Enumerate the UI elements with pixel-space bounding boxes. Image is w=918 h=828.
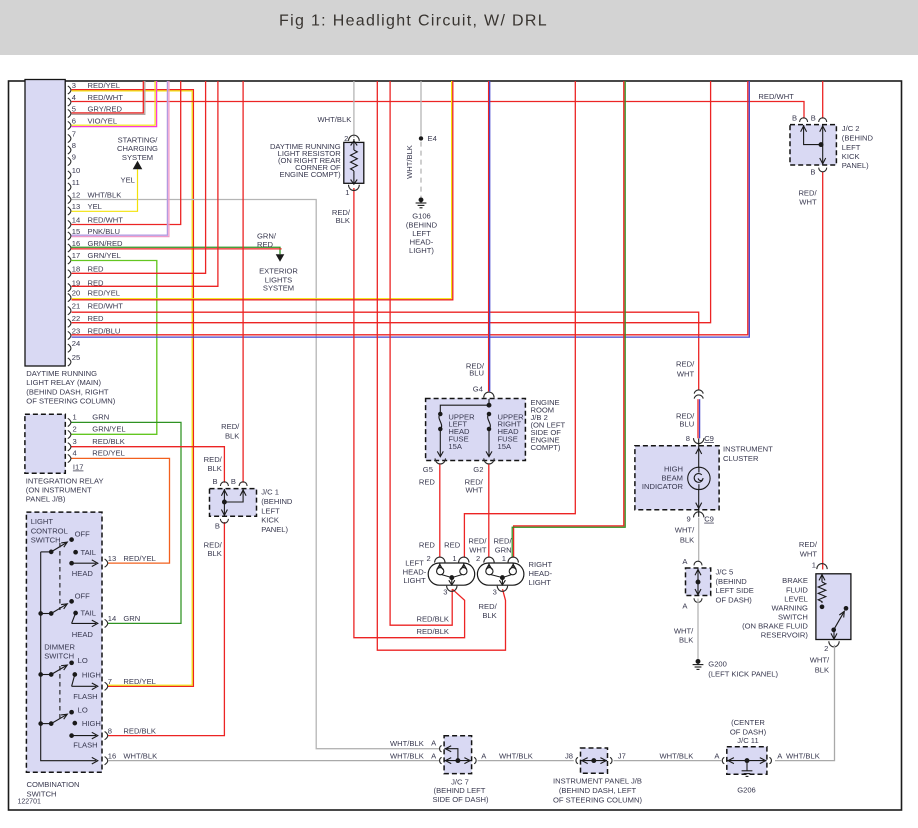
svg-text:122701: 122701 bbox=[18, 799, 41, 806]
wire WHT/BLK top frame to E4 bbox=[420, 81, 422, 136]
svg-text:C9: C9 bbox=[704, 434, 714, 443]
wire pin3 RED/YEL (yellow of pair) bbox=[72, 91, 193, 685]
cluster pin labels bbox=[686, 434, 714, 524]
svg-text:LEFT: LEFT bbox=[842, 143, 861, 152]
svg-text:HIGH: HIGH bbox=[82, 670, 101, 679]
lamp RIGHT HEADLIGHT bbox=[477, 563, 524, 585]
svg-text:LIGHT: LIGHT bbox=[31, 517, 54, 526]
lamp HIGH BEAM INDICATOR bbox=[688, 439, 710, 517]
wire RED/BLK left headlight pin 3 to top frame bbox=[390, 81, 452, 625]
svg-text:WHT/BLK: WHT/BLK bbox=[786, 751, 820, 760]
svg-text:RED/YEL: RED/YEL bbox=[88, 81, 121, 90]
svg-text:J/C 1: J/C 1 bbox=[261, 488, 279, 497]
svg-text:14: 14 bbox=[72, 215, 80, 224]
label HIGH BEAM INDICATOR bbox=[642, 465, 684, 492]
svg-text:17: 17 bbox=[72, 251, 80, 260]
svg-text:INSTRUMENT: INSTRUMENT bbox=[723, 445, 773, 454]
svg-text:G106: G106 bbox=[412, 212, 431, 221]
resistor pin 1 arc bbox=[349, 185, 360, 191]
wire WHT/BLK dashed E4 to G106 bbox=[420, 142, 422, 197]
svg-text:18: 18 bbox=[72, 265, 80, 274]
svg-text:22: 22 bbox=[72, 314, 80, 323]
svg-text:HEAD: HEAD bbox=[72, 569, 94, 578]
svg-text:25: 25 bbox=[72, 353, 80, 362]
svg-text:WHT/BLK: WHT/BLK bbox=[405, 145, 414, 179]
junction J/C2 box bbox=[790, 125, 836, 165]
svg-text:21: 21 bbox=[72, 302, 80, 311]
svg-text:RIGHT: RIGHT bbox=[529, 560, 553, 569]
combination switch pin labels bbox=[108, 554, 157, 761]
brake switch pin 1 arc bbox=[817, 564, 827, 570]
svg-text:1: 1 bbox=[812, 560, 816, 569]
svg-text:KICK: KICK bbox=[261, 516, 279, 525]
svg-text:SWITCH: SWITCH bbox=[44, 651, 74, 660]
svg-text:HEAD-: HEAD- bbox=[403, 567, 427, 576]
resistor element and arrows bbox=[351, 139, 358, 185]
svg-text:16: 16 bbox=[108, 752, 116, 761]
svg-text:DAYTIME RUNNING: DAYTIME RUNNING bbox=[26, 369, 97, 378]
svg-text:8: 8 bbox=[108, 726, 112, 735]
svg-text:(BEHIND DASH, RIGHT: (BEHIND DASH, RIGHT bbox=[26, 387, 109, 396]
junction J/C11 box bbox=[727, 747, 767, 775]
svg-text:A: A bbox=[431, 739, 437, 748]
J/C2 pin B labels bbox=[792, 113, 816, 176]
svg-text:PANEL J/B): PANEL J/B) bbox=[26, 494, 66, 503]
J/C5 pin arcs bbox=[694, 561, 702, 602]
label G106 (BEHIND LEFT HEADLIGHT) bbox=[406, 212, 438, 256]
label LIGHT CONTROL SWITCH bbox=[31, 517, 68, 545]
svg-text:OF STEERING COLUMN): OF STEERING COLUMN) bbox=[26, 397, 115, 406]
svg-text:LIGHT): LIGHT) bbox=[409, 246, 434, 255]
label J/C 7 (BEHIND LEFT SIDE OF DASH) bbox=[432, 777, 489, 804]
combination switch pin arcs bbox=[105, 559, 108, 765]
wire RED/BLU (red of pair) connector to cluster pin 8 bbox=[697, 399, 699, 438]
switch COMBINATION SWITCH box bbox=[26, 512, 102, 772]
wire RED/BLK top frame to J/C1 pin B right bbox=[242, 81, 244, 483]
svg-text:RED/WHT: RED/WHT bbox=[758, 92, 794, 101]
svg-text:WHT/BLK: WHT/BLK bbox=[390, 739, 424, 748]
svg-text:CHARGING: CHARGING bbox=[117, 144, 158, 153]
wire pin15 PNK/BLU (violet of pair) to top frame bbox=[72, 81, 168, 235]
svg-text:LO: LO bbox=[78, 656, 88, 665]
switch BRAKE FLUID LEVEL WARNING SWITCH box bbox=[816, 574, 851, 640]
svg-text:RED: RED bbox=[88, 265, 105, 274]
wire pin20 RED/YEL (red of pair) bbox=[72, 81, 453, 300]
svg-text:BLU: BLU bbox=[469, 369, 484, 378]
wire RED/BLK right headlight pin 3 to top frame bbox=[377, 81, 505, 650]
svg-text:(BEHIND: (BEHIND bbox=[406, 220, 438, 229]
label WHT/BLK below brake switch bbox=[810, 655, 830, 674]
label INTEGRATION RELAY (ON INSTRUMENT PANEL J/B) bbox=[26, 476, 104, 503]
light control switch pole 2 bbox=[39, 600, 98, 627]
svg-text:A: A bbox=[682, 557, 688, 566]
svg-text:WHT/BLK: WHT/BLK bbox=[318, 115, 352, 124]
svg-text:PANEL): PANEL) bbox=[842, 161, 869, 170]
svg-text:G200: G200 bbox=[708, 660, 727, 669]
wire WHT/BLK J/C5 to G200 bbox=[697, 599, 699, 660]
svg-text:PNK/BLU: PNK/BLU bbox=[88, 227, 121, 236]
svg-text:13: 13 bbox=[72, 202, 80, 211]
svg-text:RESERVOIR): RESERVOIR) bbox=[761, 630, 809, 639]
fuse UPPER LEFT HEAD FUSE 15A bbox=[437, 412, 443, 457]
svg-text:C9: C9 bbox=[704, 515, 714, 524]
svg-text:5: 5 bbox=[72, 104, 76, 113]
svg-text:WHT/: WHT/ bbox=[674, 627, 694, 636]
combination switch common bus to pin 16 bbox=[41, 552, 98, 764]
svg-text:RED/: RED/ bbox=[676, 359, 695, 368]
label J/C 1 (BEHIND LEFT KICK PANEL) bbox=[261, 488, 293, 535]
svg-text:SYSTEM: SYSTEM bbox=[122, 153, 153, 162]
light control switch 1 position labels bbox=[72, 530, 96, 579]
arrowhead to exterior lights system bbox=[276, 254, 285, 262]
label DIMMER SWITCH bbox=[44, 642, 75, 660]
svg-text:ENGINE COMPT): ENGINE COMPT) bbox=[280, 170, 342, 179]
label J/C 2 (BEHIND LEFT KICK PANEL) bbox=[842, 124, 874, 170]
svg-text:SWITCH: SWITCH bbox=[31, 535, 61, 544]
svg-text:BLK: BLK bbox=[207, 464, 221, 473]
wire pin4 RED/WHT to J/C2 pin B left bbox=[72, 102, 805, 119]
label G200 (LEFT KICK PANEL) bbox=[708, 660, 778, 679]
svg-text:INTEGRATION RELAY: INTEGRATION RELAY bbox=[26, 476, 104, 485]
svg-text:SIDE OF DASH): SIDE OF DASH) bbox=[432, 795, 489, 804]
svg-text:CONTROL: CONTROL bbox=[31, 527, 68, 536]
wire RED/WHT top frame to J/C2 pin B right bbox=[822, 81, 824, 119]
svg-text:8: 8 bbox=[686, 434, 690, 443]
svg-text:RED: RED bbox=[444, 540, 461, 549]
svg-text:TAIL: TAIL bbox=[81, 609, 96, 618]
svg-text:VIO/YEL: VIO/YEL bbox=[88, 116, 118, 125]
J/C1 internal links bbox=[221, 489, 246, 516]
label BRAKE FLUID LEVEL WARNING SWITCH (ON BRAKE FLUID RESERVOIR) bbox=[742, 576, 808, 639]
svg-text:Fig 1: Headlight Circuit, W/ D: Fig 1: Headlight Circuit, W/ DRL bbox=[279, 12, 548, 29]
svg-text:9: 9 bbox=[686, 515, 690, 524]
J/C2 pin arcs bbox=[800, 118, 827, 172]
svg-text:RED/BLU: RED/BLU bbox=[88, 326, 121, 335]
label WHT/BLK below J/C5 bbox=[674, 627, 694, 645]
wire WHT/BLK top frame to DRL resistor pin 2 bbox=[353, 81, 355, 138]
svg-text:G4: G4 bbox=[473, 385, 483, 394]
svg-text:FLASH: FLASH bbox=[73, 692, 97, 701]
dimmer switch pole 2 bbox=[39, 710, 98, 739]
gang link light control switches bbox=[59, 543, 61, 610]
svg-text:BLK: BLK bbox=[680, 536, 694, 545]
wire RED fuse G5 to left headlight pin 2 bbox=[439, 464, 441, 557]
wire pin13 YEL to starting/charging system bbox=[72, 169, 138, 211]
svg-text:A: A bbox=[777, 751, 783, 760]
relay INTEGRATION RELAY box bbox=[25, 414, 65, 473]
svg-text:(ON BRAKE FLUID: (ON BRAKE FLUID bbox=[742, 621, 808, 630]
svg-text:RED/BLK: RED/BLK bbox=[92, 437, 125, 446]
wire WHT/BLK J/C7 to instrument panel J/B bbox=[478, 760, 574, 762]
svg-text:E4: E4 bbox=[428, 134, 437, 143]
svg-text:B: B bbox=[213, 477, 218, 486]
brake switch internals bbox=[818, 574, 848, 639]
svg-text:GRN: GRN bbox=[495, 546, 512, 555]
DRL relay pin arcs 3-25 bbox=[68, 86, 71, 366]
dimmer switch 1 position labels bbox=[73, 656, 101, 701]
label J/C 5 (BEHIND LEFT SIDE OF DASH) bbox=[716, 568, 754, 605]
svg-text:12: 12 bbox=[72, 190, 80, 199]
svg-text:RED/WHT: RED/WHT bbox=[88, 302, 124, 311]
wire WHT/BLK brake switch pin 2 to J/C11 bbox=[775, 645, 835, 761]
svg-text:(BEHIND: (BEHIND bbox=[716, 577, 748, 586]
svg-text:RED/: RED/ bbox=[468, 537, 487, 546]
svg-text:GRN/: GRN/ bbox=[257, 231, 277, 240]
svg-text:9: 9 bbox=[72, 152, 76, 161]
svg-text:LIGHT: LIGHT bbox=[403, 576, 426, 585]
svg-text:RED: RED bbox=[257, 240, 274, 249]
svg-text:B: B bbox=[810, 168, 815, 177]
svg-text:WHT/: WHT/ bbox=[810, 655, 830, 664]
wire pin20 RED/YEL (yellow of pair) to top frame bbox=[72, 81, 452, 299]
wire pin6 VIO/YEL (violet of pair) bbox=[72, 81, 157, 127]
svg-text:OF DASH): OF DASH) bbox=[716, 595, 753, 604]
label RED/BLK below J/C1 bbox=[204, 540, 223, 558]
svg-text:1: 1 bbox=[452, 554, 456, 563]
wire pin15 PNK/BLU (pink of pair) bbox=[72, 81, 169, 237]
svg-text:B: B bbox=[231, 477, 236, 486]
svg-text:24: 24 bbox=[72, 339, 80, 348]
svg-text:A: A bbox=[431, 751, 437, 760]
junction J/C7 box bbox=[444, 736, 472, 774]
svg-text:16: 16 bbox=[72, 239, 80, 248]
wire pin14 RED/WHT to top frame bbox=[72, 81, 181, 225]
svg-text:BLK: BLK bbox=[679, 635, 693, 644]
svg-text:EXTERIOR: EXTERIOR bbox=[259, 266, 298, 275]
svg-text:WHT/BLK: WHT/BLK bbox=[660, 751, 694, 760]
lamp LEFT HEADLIGHT bbox=[428, 563, 475, 585]
label RED/WHT below J/C2 bbox=[798, 188, 817, 206]
svg-text:RED/: RED/ bbox=[221, 422, 240, 431]
resistor pin 2 arc bbox=[349, 135, 360, 141]
svg-text:13: 13 bbox=[108, 554, 116, 563]
integration relay pin arcs bbox=[68, 418, 71, 462]
svg-text:RED/: RED/ bbox=[479, 602, 498, 611]
junction J/C1 box bbox=[210, 489, 257, 517]
svg-text:RED/WHT: RED/WHT bbox=[88, 93, 124, 102]
svg-text:WARNING: WARNING bbox=[771, 603, 808, 612]
svg-text:WHT: WHT bbox=[800, 550, 818, 559]
wire RED/GRN (red of pair) right headlight pin 1 to top frame bbox=[514, 81, 624, 558]
svg-text:HEAD: HEAD bbox=[72, 630, 94, 639]
svg-text:WHT: WHT bbox=[466, 486, 484, 495]
wire RED/GRN (green of pair) bbox=[512, 81, 625, 558]
svg-text:LO: LO bbox=[78, 705, 88, 714]
label COMBINATION SWITCH bbox=[27, 780, 80, 799]
svg-text:RED/YEL: RED/YEL bbox=[88, 288, 121, 297]
svg-text:4: 4 bbox=[73, 449, 77, 458]
svg-text:J/C 7: J/C 7 bbox=[451, 777, 469, 786]
svg-text:OF STEERING COLUMN): OF STEERING COLUMN) bbox=[553, 795, 642, 804]
svg-text:WHT/BLK: WHT/BLK bbox=[123, 752, 157, 761]
wire WHT/BLK cluster pin 9 to J/C5 bbox=[698, 518, 700, 562]
wire RED/BLU (blue of pair) to G4 bbox=[489, 81, 491, 391]
svg-text:GRN/RED: GRN/RED bbox=[88, 239, 124, 248]
label WHT/BLK below cluster bbox=[675, 526, 695, 545]
label RED/WHT below G2 bbox=[465, 478, 484, 495]
wire pin5 GRY/RED (gray of pair) bbox=[72, 81, 145, 114]
label RED/BLU below inline connector bbox=[676, 411, 695, 428]
label RED/BLK below resistor bbox=[332, 208, 351, 225]
wire integration relay pin1 GRN to combination switch pin 14 bbox=[71, 422, 181, 623]
svg-text:FLASH: FLASH bbox=[73, 741, 97, 750]
svg-text:WHT: WHT bbox=[469, 546, 487, 555]
wire pin23 RED/BLU (red of pair) to top frame bbox=[72, 81, 748, 335]
svg-text:RED/YEL: RED/YEL bbox=[123, 677, 155, 686]
svg-text:RED: RED bbox=[419, 540, 436, 549]
svg-text:GRN: GRN bbox=[92, 413, 109, 422]
svg-text:A: A bbox=[682, 601, 688, 610]
svg-text:B: B bbox=[792, 113, 797, 122]
label RED/BLK right riser of J/C1 bbox=[221, 422, 240, 440]
wire integration relay pin3 RED/BLK to J/C1 pin B left bbox=[71, 447, 225, 483]
label LEFT HEADLIGHT bbox=[403, 559, 427, 585]
wire RED/WHT J/C2 bottom pin B to brake fluid switch pin 1 bbox=[822, 172, 824, 570]
svg-text:6: 6 bbox=[72, 116, 76, 125]
svg-text:WHT: WHT bbox=[677, 370, 695, 379]
junction INSTRUMENT PANEL J/B box bbox=[581, 748, 608, 773]
svg-text:G206: G206 bbox=[737, 786, 756, 795]
svg-text:(CENTER: (CENTER bbox=[731, 718, 765, 727]
label RED/BLK left riser of J/C1 bbox=[204, 455, 223, 473]
svg-text:3: 3 bbox=[493, 588, 497, 597]
wire pin3 RED/YEL (red of pair) to combination switch pin 7 bbox=[72, 90, 194, 687]
svg-text:OFF: OFF bbox=[75, 591, 91, 600]
svg-text:BLK: BLK bbox=[336, 216, 350, 225]
svg-text:BRAKE: BRAKE bbox=[782, 576, 808, 585]
J/C11 internal link and ground G206 bbox=[727, 758, 766, 777]
wire pin12 WHT/BLK to J/C7 pin A upper bbox=[72, 200, 440, 749]
svg-text:INSTRUMENT PANEL J/B: INSTRUMENT PANEL J/B bbox=[553, 776, 642, 785]
label RED/BLU above G4 bbox=[466, 361, 485, 377]
cluster INSTRUMENT CLUSTER box bbox=[635, 446, 719, 510]
wire integration relay pin4 RED/YEL to combination switch pin 13 bbox=[71, 458, 170, 563]
label INSTRUMENT CLUSTER bbox=[723, 445, 773, 463]
IP J/B internal link bbox=[581, 758, 607, 764]
svg-text:23: 23 bbox=[72, 326, 80, 335]
resistor pin labels bbox=[344, 134, 349, 197]
brake switch pin labels bbox=[812, 560, 829, 653]
svg-text:RED: RED bbox=[88, 314, 105, 323]
svg-text:GRN: GRN bbox=[123, 614, 140, 623]
svg-text:RED/BLK: RED/BLK bbox=[123, 726, 155, 735]
svg-text:1: 1 bbox=[73, 413, 77, 422]
svg-text:(BEHIND DASH, LEFT: (BEHIND DASH, LEFT bbox=[559, 786, 637, 795]
label INSTRUMENT PANEL J/B (BEHIND DASH, LEFT OF STEERING COLUMN) bbox=[553, 776, 642, 804]
label RED/GRN above right headlight pin 1 bbox=[493, 537, 512, 555]
J/C2 internal links bbox=[801, 125, 826, 165]
label (CENTER OF DASH) J/C 11 bbox=[730, 718, 767, 745]
svg-text:RED: RED bbox=[419, 478, 436, 487]
svg-text:1: 1 bbox=[502, 554, 506, 563]
svg-text:J/C 5: J/C 5 bbox=[716, 568, 734, 577]
ground G200 bbox=[693, 660, 704, 670]
svg-text:RED/: RED/ bbox=[799, 540, 818, 549]
svg-text:OF DASH): OF DASH) bbox=[730, 727, 767, 736]
svg-text:2: 2 bbox=[426, 554, 430, 563]
arrowhead to starting/charging system bbox=[133, 161, 143, 170]
svg-text:14: 14 bbox=[108, 614, 116, 623]
brake switch pin 2 arc bbox=[829, 641, 839, 647]
svg-text:15A: 15A bbox=[498, 442, 512, 451]
svg-text:A: A bbox=[481, 751, 487, 760]
svg-text:HIGH: HIGH bbox=[664, 465, 683, 474]
svg-text:RED/WHT: RED/WHT bbox=[88, 215, 124, 224]
svg-text:J7: J7 bbox=[618, 751, 626, 760]
svg-text:OFF: OFF bbox=[75, 530, 91, 539]
svg-text:1: 1 bbox=[345, 188, 349, 197]
wire RED/BLK DRL resistor pin 1 to left headlight pin 3 bbox=[354, 188, 465, 638]
svg-text:SWITCH: SWITCH bbox=[778, 612, 808, 621]
svg-text:2: 2 bbox=[73, 425, 77, 434]
wire RED/BLK J/C1 bottom pin B to combination switch pin 8 bbox=[108, 522, 224, 736]
svg-text:YEL: YEL bbox=[88, 202, 102, 211]
IP J/B pin arcs bbox=[576, 757, 612, 763]
wire pin22 RED to top frame bbox=[72, 81, 711, 323]
J/C11 pin arcs bbox=[722, 757, 771, 763]
svg-text:RED/: RED/ bbox=[493, 537, 512, 546]
svg-text:(BEHIND: (BEHIND bbox=[261, 497, 293, 506]
ground G106 bbox=[416, 198, 427, 208]
svg-text:G5: G5 bbox=[423, 465, 433, 474]
dimmer switch 2 position labels bbox=[73, 705, 101, 749]
svg-text:BLU: BLU bbox=[679, 420, 694, 429]
J/C1 pin arcs bbox=[220, 482, 247, 523]
fuse labels bbox=[448, 412, 524, 451]
svg-text:G2: G2 bbox=[473, 465, 483, 474]
svg-text:HEAD-: HEAD- bbox=[529, 569, 553, 578]
svg-text:RED/: RED/ bbox=[204, 455, 223, 464]
wire WHT/BLK instrument panel J/B to J/C11 bbox=[614, 760, 722, 762]
svg-text:STARTING/: STARTING/ bbox=[118, 135, 159, 144]
svg-text:GRN/YEL: GRN/YEL bbox=[88, 251, 121, 260]
headlight pin number labels bbox=[426, 554, 506, 597]
svg-text:TAIL: TAIL bbox=[81, 548, 96, 557]
DRL relay pin numbers and wire color labels bbox=[72, 81, 123, 362]
labels G5 G2 bbox=[423, 465, 484, 474]
G2 pin arc bbox=[484, 458, 494, 464]
inline connector arcs above instrument cluster bbox=[694, 390, 703, 399]
J/C1 pin B labels bbox=[213, 477, 236, 530]
integration relay pin labels bbox=[73, 413, 126, 458]
svg-text:SWITCH: SWITCH bbox=[27, 789, 57, 798]
J/C7 pin arcs bbox=[440, 746, 477, 764]
wire RED/WHT fuse G2 to right headlight pin 2 bbox=[488, 464, 490, 557]
label EXTERIOR LIGHTS SYSTEM bbox=[259, 266, 298, 292]
G4 pin arc bbox=[484, 392, 494, 398]
svg-text:A: A bbox=[714, 751, 720, 760]
svg-text:RED/: RED/ bbox=[204, 540, 223, 549]
svg-text:RED/BLK: RED/BLK bbox=[417, 615, 450, 624]
svg-text:GRN/YEL: GRN/YEL bbox=[92, 425, 125, 434]
svg-text:SYSTEM: SYSTEM bbox=[263, 284, 294, 293]
wire pin17 GRN/YEL to integration relay pin 2 bbox=[71, 261, 157, 435]
wire RED left headlight pin 1 to top frame bbox=[464, 81, 575, 558]
svg-text:2: 2 bbox=[344, 134, 348, 143]
svg-text:(LEFT KICK PANEL): (LEFT KICK PANEL) bbox=[708, 669, 778, 678]
wire RED/BLU (blue of pair) bbox=[699, 399, 701, 438]
svg-text:BLK: BLK bbox=[815, 666, 829, 675]
svg-text:RED/YEL: RED/YEL bbox=[123, 554, 155, 563]
J/C5 internal link bbox=[695, 568, 701, 595]
svg-text:RED/YEL: RED/YEL bbox=[92, 449, 125, 458]
label RED/WHT above inline connector bbox=[676, 359, 695, 378]
svg-text:J8: J8 bbox=[565, 751, 573, 760]
wire pin23 RED/BLU (blue of pair) bbox=[72, 81, 750, 337]
svg-text:I17: I17 bbox=[73, 463, 84, 472]
wire pin18 RED to top frame bbox=[72, 81, 206, 273]
wire pin21 RED/WHT to inline connector bbox=[72, 312, 699, 390]
